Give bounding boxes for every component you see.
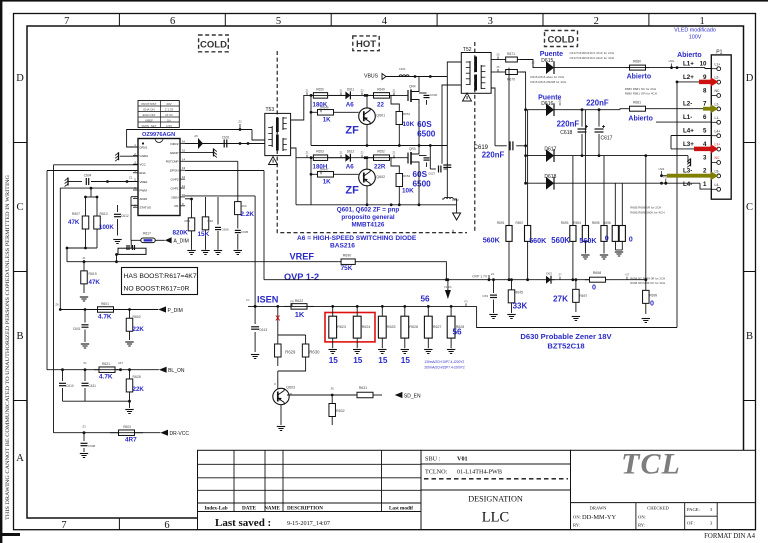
svg-text:R645: R645 [515, 291, 523, 295]
svg-text:R698 0R R699 NC for 4CH: R698 0R R699 NC for 4CH [630, 281, 665, 285]
svg-text:R628: R628 [133, 375, 141, 379]
svg-text:D: D [746, 73, 754, 84]
svg-text:14: 14 [182, 157, 186, 161]
wire DRV2 to T53 [185, 143, 265, 145]
svg-text:R626: R626 [409, 325, 418, 329]
svg-text:R622: R622 [295, 299, 304, 303]
T53 secondary windings [282, 117, 284, 130]
wire cap bottoms [63, 400, 130, 402]
svg-text:COLD: COLD [200, 39, 227, 50]
left margin legal text [6, 174, 11, 520]
wire OVP2 right [185, 170, 264, 172]
transistor Q602 [359, 169, 376, 186]
wire L2- rail [554, 109, 620, 111]
capacitor C626 [443, 164, 451, 166]
svg-text:60S: 60S [413, 170, 428, 179]
wire VREF pin [91, 181, 138, 183]
arrow P_DIM [158, 306, 166, 312]
svg-text:R690: R690 [343, 253, 352, 257]
wire qr4 source down [418, 105, 420, 146]
capacitor C601 [84, 310, 86, 323]
svg-text:Z2: Z2 [238, 120, 242, 124]
right bus vertical [676, 82, 678, 328]
svg-text:ENA OFF: ENA OFF [143, 113, 156, 117]
wire q602 collector [366, 158, 368, 170]
svg-text:OF :: OF : [687, 521, 695, 526]
svg-text:C612: C612 [121, 214, 129, 218]
svg-text:RSTCMP: RSTCMP [166, 160, 179, 164]
svg-text:HAS BOOST:R617=4K7: HAS BOOST:R617=4K7 [124, 273, 197, 280]
resistor R645 [510, 278, 513, 281]
svg-text:Q602: Q602 [376, 175, 385, 179]
svg-text:0: 0 [650, 299, 654, 308]
svg-text:RY:: RY: [573, 523, 580, 528]
svg-text:L2+: L2+ [683, 74, 694, 81]
ground GNDA hatch [120, 155, 138, 157]
svg-text:V01: V01 [457, 455, 468, 462]
svg-text:NAME: NAME [264, 506, 280, 512]
resistor R630 [305, 335, 307, 344]
svg-text:BAS216: BAS216 [330, 243, 355, 250]
svg-text:560K: 560K [551, 236, 570, 245]
svg-text:15K: 15K [198, 231, 210, 238]
svg-text:RY:: RY: [638, 523, 645, 528]
wire VBUS rail [386, 76, 447, 78]
svg-text:C601: C601 [73, 327, 81, 331]
svg-text:9-15-2017_14:07: 9-15-2017_14:07 [287, 520, 330, 527]
wire c627 verts [429, 146, 431, 170]
svg-text:OVP2: OVP2 [170, 178, 178, 182]
wire q603 collector [277, 371, 279, 389]
svg-text:R653: R653 [316, 150, 324, 154]
node Z2 stub [239, 124, 241, 130]
svg-text:C602: C602 [222, 136, 230, 140]
ovp vertical [263, 171, 265, 280]
svg-text:A6: A6 [346, 101, 354, 108]
svg-text:130mA/2CH DIP7.4-J200Y2: 130mA/2CH DIP7.4-J200Y2 [424, 360, 464, 364]
svg-text:OVP 1-2: OVP 1-2 [284, 272, 319, 282]
svg-text:D: D [16, 73, 24, 84]
svg-text:A_DIM: A_DIM [174, 238, 189, 244]
wire pin RF [185, 198, 192, 200]
svg-text:R60: R60 [208, 219, 214, 223]
signal ground hot [456, 205, 458, 213]
svg-text:R647: R647 [321, 167, 329, 171]
wire to q603 branch [277, 306, 279, 335]
svg-text:A6: A6 [346, 164, 354, 171]
svg-text:DR-VCC: DR-VCC [170, 431, 190, 437]
svg-text:R603: R603 [123, 425, 131, 429]
ground R645 [507, 314, 515, 316]
svg-text:P1: P1 [716, 50, 722, 56]
arrow junction DRV2 [198, 138, 203, 149]
wire r681 to pin7 [649, 108, 711, 110]
svg-text:T52: T52 [463, 47, 472, 53]
resistor R621 [94, 369, 99, 371]
svg-text:R629: R629 [285, 349, 296, 354]
svg-text:C618: C618 [560, 130, 572, 136]
svg-text:22R: 22R [374, 164, 386, 171]
ena left vertical [46, 171, 48, 370]
svg-text:DESCRIPTION: DESCRIPTION [287, 506, 323, 512]
svg-text:PROT/RST: PROT/RST [141, 102, 156, 106]
svg-text:0: 0 [592, 283, 596, 292]
wire pin ISEN right [185, 195, 255, 197]
svg-text:FORMAT DIN A4: FORMAT DIN A4 [704, 533, 755, 540]
page edge [0, 0, 768, 2]
resistor R611 820K [191, 199, 193, 218]
svg-text:DD-MM-YY: DD-MM-YY [582, 514, 616, 521]
svg-text:R697: R697 [580, 294, 588, 298]
svg-text:L4-: L4- [715, 183, 720, 187]
stage2 rail [311, 157, 405, 159]
T52 secondary winding [480, 65, 482, 89]
resistor R671 [504, 59, 506, 61]
svg-text:D63: D63 [546, 272, 552, 276]
svg-text:C608: C608 [88, 444, 96, 448]
svg-text:C611: C611 [89, 384, 97, 388]
svg-text:C: C [16, 202, 23, 213]
stub labels L604 L605 [661, 171, 663, 176]
resistor R601 [93, 309, 98, 311]
svg-text:DRAWN: DRAWN [590, 506, 608, 511]
svg-text:7: 7 [64, 16, 69, 27]
wire base q602 [340, 173, 359, 175]
capacitor C628 [419, 155, 427, 157]
svg-text:DATE: DATE [242, 506, 257, 512]
resistor R624 [356, 305, 359, 308]
svg-text:OZ9976AGN: OZ9976AGN [142, 132, 175, 138]
svg-text:L2-: L2- [715, 103, 720, 107]
svg-text:Q601, Q602 ZF = pnp: Q601, Q602 ZF = pnp [337, 207, 400, 214]
svg-text:ON:: ON: [638, 515, 646, 520]
svg-text:1K: 1K [323, 179, 331, 186]
svg-text:VREF: VREF [140, 180, 148, 184]
svg-text:L601: L601 [399, 67, 406, 71]
mosfet QR3 [405, 157, 408, 159]
wire STATUS [131, 204, 138, 206]
svg-text:SBU :: SBU : [425, 455, 441, 462]
svg-text:Abierto: Abierto [628, 115, 653, 122]
svg-text:27K: 27K [553, 295, 568, 304]
wire L1+ rail [554, 67, 705, 69]
resistor R627 [427, 305, 430, 308]
svg-text:L3-: L3- [683, 168, 692, 175]
resistor R603 [110, 432, 119, 434]
capacitor C605 [237, 217, 239, 228]
wire q601 collector [366, 95, 368, 108]
svg-text:QR4: QR4 [409, 85, 416, 89]
olive arrow pin7 [703, 107, 712, 111]
svg-text:BZT52C18: BZT52C18 [547, 342, 584, 351]
svg-text:PAGE:: PAGE: [687, 507, 700, 512]
svg-text:ISEN: ISEN [444, 285, 451, 289]
node bottom R607 R610 [67, 247, 97, 249]
svg-text:47K: 47K [68, 219, 80, 226]
svg-text:MMBT4126: MMBT4126 [352, 222, 385, 229]
wire t53 mid down [295, 158, 297, 205]
svg-text:15: 15 [378, 356, 388, 365]
svg-text:HOT: HOT [356, 39, 376, 50]
ground R627 [424, 349, 432, 351]
svg-text:Last saved :: Last saved : [215, 517, 271, 529]
wire BL_ON row [47, 369, 159, 371]
svg-text:C617/C618/C619 0.47uF for 2CH: C617/C618/C619 0.47uF for 2CH [570, 51, 615, 55]
wire RSTCMP to 2.2K [185, 160, 238, 162]
svg-text:NC: NC [715, 89, 720, 93]
wire pin5 net [671, 135, 711, 137]
svg-text:75K: 75K [341, 265, 353, 272]
svg-text:C605: C605 [241, 230, 249, 234]
svg-text:L1-: L1- [715, 116, 720, 120]
wire bank to OVP rail [508, 241, 510, 279]
svg-text:D615,D616 aben for 2CH: D615,D616 aben for 2CH [530, 75, 564, 79]
resistor R691 [508, 68, 510, 226]
connector P1 box [711, 55, 731, 199]
wire pin2 net [662, 175, 712, 177]
svg-text:L3+: L3+ [683, 141, 694, 148]
svg-text:Index-Lab: Index-Lab [204, 506, 227, 512]
ground R602 [125, 341, 133, 343]
capacitor C610 [62, 370, 64, 381]
ground VREF hatch [67, 178, 69, 186]
svg-text:R699: R699 [650, 294, 658, 298]
svg-text:DESIGNATION: DESIGNATION [468, 495, 523, 504]
svg-text:13: 13 [182, 166, 186, 170]
svg-text:0: 0 [605, 233, 609, 242]
svg-text:820K: 820K [173, 230, 189, 237]
svg-text:R648: R648 [321, 105, 329, 109]
svg-text:ON:: ON: [573, 515, 581, 520]
svg-text:RF: RF [175, 204, 179, 208]
svg-text:Last modif: Last modif [389, 506, 413, 512]
svg-text:L604: L604 [659, 167, 665, 171]
svg-text:6500: 6500 [417, 130, 436, 139]
svg-text:60S: 60S [417, 120, 432, 129]
wire DRV1 loop [127, 130, 252, 148]
olive arrow pin2 [667, 174, 712, 178]
resistor R629 [277, 335, 279, 344]
svg-text:4R7: 4R7 [125, 437, 137, 444]
svg-text:Q601: Q601 [376, 114, 385, 118]
svg-text:3.5V: 3.5V [166, 124, 172, 128]
ground Q603 [277, 426, 285, 428]
svg-text:ZF: ZF [345, 125, 359, 137]
svg-text:6: 6 [703, 114, 707, 121]
svg-text:C627: C627 [428, 172, 436, 176]
arrow A_DIM [165, 237, 172, 243]
svg-text:R625: R625 [387, 325, 396, 329]
svg-text:L1-: L1- [683, 114, 692, 121]
resistor R670 [504, 71, 506, 73]
svg-text:PWM: PWM [140, 188, 148, 192]
svg-text:R61: R61 [184, 219, 190, 223]
svg-text:ENA: ENA [140, 171, 146, 175]
svg-text:DRV2: DRV2 [171, 142, 179, 146]
capacitor C611 [84, 370, 86, 381]
svg-text:L5-: L5- [715, 170, 720, 174]
wire VREF to OVP junction [358, 262, 447, 280]
svg-text:QR3: QR3 [409, 147, 416, 151]
svg-text:LLC: LLC [482, 510, 509, 526]
wire ADIM [131, 196, 138, 198]
ground R623 [329, 349, 337, 351]
svg-text:24T: 24T [118, 361, 123, 365]
svg-text:56: 56 [421, 294, 431, 303]
wire mid left vert [310, 112, 312, 145]
svg-text:R652: R652 [377, 150, 385, 154]
wire pin9 net [677, 81, 711, 83]
wire PWM [60, 187, 138, 189]
ground R699 [642, 318, 650, 320]
frame column ticks bottom [118, 518, 120, 530]
svg-text:R607: R607 [72, 212, 80, 216]
svg-text:2 1.33: 2 1.33 [165, 107, 174, 111]
HOT zone box [353, 36, 379, 51]
svg-text:L2-: L2- [715, 76, 720, 80]
ground R694 [584, 241, 586, 253]
svg-text:L60L: L60L [669, 59, 675, 63]
wire OVP rail right [446, 279, 590, 281]
cold boundary dashed line through T52 [474, 42, 476, 233]
svg-text:NO BOOST:R617=0R: NO BOOST:R617=0R [124, 285, 190, 292]
arrow BL_ON [159, 367, 167, 373]
hatch ground pin3 [688, 156, 690, 163]
ground R619 [80, 296, 88, 298]
svg-text:R631: R631 [359, 386, 368, 390]
svg-text:01-L14TH4-PWB: 01-L14TH4-PWB [457, 468, 502, 475]
T52 core [474, 57, 477, 73]
svg-text:VREF: VREF [145, 118, 153, 122]
tclno dashed separator [424, 478, 568, 480]
drawn cell [635, 503, 637, 530]
svg-text:R617: R617 [143, 232, 151, 236]
svg-text:R692: R692 [515, 221, 523, 225]
svg-text:6: 6 [164, 520, 169, 531]
mosfet QR4 [405, 94, 408, 96]
ground C613 [251, 354, 259, 356]
wire stage1 vert left [310, 95, 312, 112]
capacitor C602 [223, 140, 225, 148]
ground C601 [81, 343, 89, 345]
svg-text:R651: R651 [403, 112, 411, 116]
ground BL_ON [128, 400, 131, 403]
arrow ISEN down [447, 280, 449, 290]
IC parameter table [138, 101, 179, 128]
op IC U601 OZ9976AGN body [138, 139, 180, 216]
svg-text:22K: 22K [133, 326, 145, 333]
wire c619 right [516, 145, 525, 147]
T52 primary winding [469, 61, 471, 85]
pwm left vertical [59, 188, 61, 309]
svg-text:CHECKED: CHECKED [647, 506, 669, 511]
resistor R602 [128, 308, 131, 311]
red arrow pin9 [699, 80, 712, 85]
diode D618 [524, 182, 527, 185]
svg-text:1: 1 [699, 16, 704, 27]
svg-text:21.5V: 21.5V [165, 113, 173, 117]
svg-text:BL_ON: BL_ON [168, 368, 185, 374]
svg-text:T53: T53 [266, 107, 275, 113]
svg-text:R650: R650 [316, 87, 324, 91]
capacitor C617 [598, 110, 600, 127]
svg-text:L2-: L2- [683, 101, 692, 108]
wire D618 rail to P1 pin1 [554, 182, 700, 184]
wire R698 right [610, 279, 646, 281]
wire DR-VCC row [54, 432, 161, 434]
svg-text:B: B [746, 331, 753, 342]
svg-text:D615,D616 0R208 for 4CH: D615,D616 0R208 for 4CH [530, 80, 566, 84]
svg-text:R694: R694 [573, 221, 581, 225]
svg-text:R601: R601 [101, 302, 109, 306]
arrow SD_EN [395, 392, 403, 398]
svg-text:R619: R619 [89, 272, 97, 276]
svg-text:SD_EN: SD_EN [404, 393, 421, 399]
wire T53 drop [252, 130, 265, 141]
svg-text:Puente: Puente [540, 51, 563, 58]
svg-text:R698: R698 [593, 271, 602, 275]
wire ISEN rail [248, 305, 477, 307]
resistor R697 [575, 278, 578, 281]
resistor R681 [626, 108, 630, 110]
svg-text:A5: A5 [194, 134, 198, 138]
svg-text:X: X [275, 314, 280, 323]
svg-text:8: 8 [703, 87, 707, 94]
svg-text:R680 R681 NC for 2CH: R680 R681 NC for 2CH [625, 87, 657, 91]
title block revision table [198, 450, 422, 529]
svg-text:L1+: L1+ [715, 62, 721, 66]
resistor R619 [83, 262, 85, 271]
wire r630 bottom loop [278, 366, 306, 371]
resistor R622 [284, 305, 291, 307]
wire L602 to bottom rail [455, 199, 458, 205]
wire qr3 source down [418, 167, 420, 205]
note box HAS BOOST [122, 268, 198, 295]
svg-text:VREF: VREF [290, 251, 315, 261]
resistor R651 10K [398, 108, 400, 112]
capacitor C604 [68, 181, 82, 183]
svg-text:260mA/2CH/15P7.4-J200Y2: 260mA/2CH/15P7.4-J200Y2 [424, 366, 464, 370]
capacitor C634 [493, 280, 495, 293]
ground R697 [572, 316, 580, 318]
svg-text:2: 2 [594, 16, 599, 27]
svg-text:33K: 33K [513, 302, 528, 311]
svg-text:ZF: ZF [345, 185, 359, 197]
svg-text:6500: 6500 [413, 180, 432, 189]
resistor R653 [311, 157, 313, 159]
svg-text:560K: 560K [579, 236, 597, 245]
COLD zone box left [199, 35, 229, 52]
svg-text:5: 5 [703, 128, 707, 135]
ground row under IC [187, 250, 195, 252]
svg-text:Z1: Z1 [83, 361, 87, 365]
svg-text:560K: 560K [529, 236, 547, 245]
svg-text:7: 7 [703, 101, 707, 108]
red arrow pin4 [694, 147, 712, 152]
svg-text:22: 22 [377, 101, 384, 108]
ground GNDP hatch [185, 151, 214, 153]
wire r671 to d615 [519, 60, 546, 68]
capacitor C618 [581, 110, 583, 127]
svg-text:L4-: L4- [683, 181, 692, 188]
resistor R631 [348, 394, 357, 396]
svg-text:4.7K: 4.7K [99, 374, 113, 381]
resistor R693 [572, 156, 574, 226]
ground R628 [447, 349, 455, 351]
svg-text:4: 4 [382, 16, 388, 27]
svg-text:Q603: Q603 [286, 385, 295, 389]
resistor R695 [603, 156, 605, 226]
